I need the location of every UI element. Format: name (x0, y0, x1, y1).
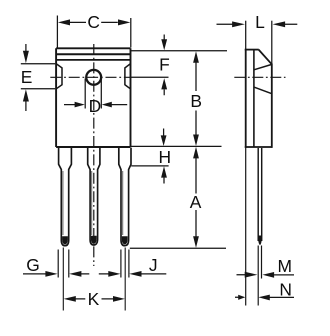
side view front face extension below (245, 148, 247, 306)
dimension E extension lines (21, 64, 56, 89)
side view bottom edge (245, 146, 272, 148)
side view hole recess edge (254, 87, 272, 94)
svg-text:A: A (190, 192, 202, 212)
dimension D extension lines (85, 79, 101, 109)
horizontal center line (50, 76, 131, 78)
lead 1 edge extension lines (58, 250, 69, 278)
body bottom extension line (131, 145, 222, 147)
center line extension right (F datum) (131, 76, 169, 78)
lead 1 (left) (59, 148, 72, 246)
front view package body outline (56, 48, 130, 147)
svg-text:E: E (21, 67, 33, 87)
left side notch (56, 64, 62, 89)
side view back face line (271, 21, 273, 65)
dimension N arrows (235, 296, 294, 298)
lead tip extension line (130, 247, 226, 249)
dimension K extension lines (63, 248, 125, 311)
side view chamfer inner edge (254, 64, 272, 69)
side view lead (258, 148, 262, 241)
dimension D arrows (64, 104, 127, 106)
side view front face line (245, 21, 247, 49)
side view inner line (253, 50, 255, 148)
vertical center line (93, 44, 95, 266)
svg-text:M: M (277, 256, 292, 276)
side view center line (234, 76, 285, 78)
mounting hole (86, 70, 101, 85)
dimension L arrows (217, 23, 298, 25)
side view lead edge extensions (257, 246, 259, 306)
svg-text:D: D (89, 96, 102, 116)
dimension H extension line (131, 165, 168, 167)
svg-text:B: B (190, 91, 202, 111)
front view mold line 2 (56, 59, 130, 61)
dimension C arrows (70, 21, 118, 23)
dimension A line and arrows (195, 156, 197, 240)
dimension M arrows (237, 274, 295, 276)
dimension C extension lines (57, 16, 130, 48)
right side notch (125, 64, 130, 89)
dimension F arrows (163, 35, 165, 96)
lead gap arrows (81, 273, 109, 275)
svg-text:N: N (279, 280, 292, 300)
lead 3 (right) (119, 148, 131, 246)
side view top edge (245, 49, 259, 51)
dimension G leader (23, 273, 46, 275)
side view top chamfer (259, 50, 272, 65)
lead 2 (middle) (88, 148, 100, 245)
svg-text:H: H (159, 147, 172, 167)
svg-text:L: L (255, 12, 265, 32)
dimension F top extension line (131, 50, 227, 52)
lead 3 edge extension lines (121, 250, 129, 278)
dimension K line and arrows (76, 298, 114, 300)
svg-text:K: K (88, 289, 100, 309)
dimension H arrows (163, 129, 165, 184)
svg-text:G: G (26, 255, 40, 275)
svg-text:C: C (87, 12, 100, 32)
svg-text:J: J (149, 255, 158, 275)
svg-text:F: F (159, 54, 170, 74)
front view mold line 1 (56, 53, 130, 55)
dimension E arrows (25, 44, 27, 111)
dimension B line and arrows (195, 60, 197, 138)
dimension J leader (141, 273, 167, 275)
